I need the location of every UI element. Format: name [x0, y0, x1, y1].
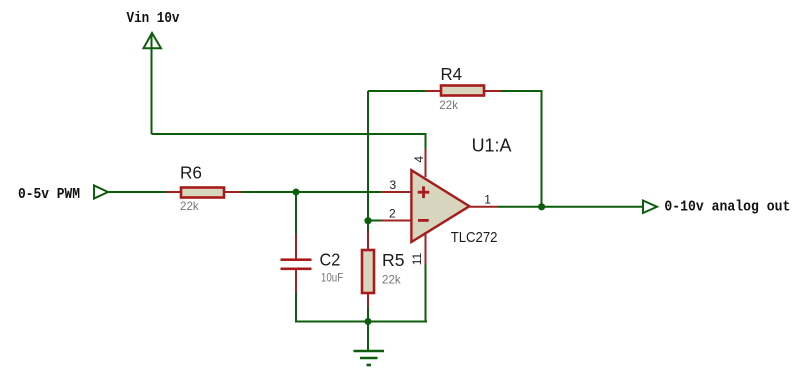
svg-text:C2: C2: [320, 249, 341, 269]
wire input to R6: [108, 191, 166, 193]
wire R5 top to junction: [367, 221, 369, 232]
svg-text:U1:A: U1:A: [472, 135, 513, 156]
wire bottom rail: [296, 321, 427, 323]
svg-text:4: 4: [412, 156, 426, 163]
pin 3: [381, 191, 411, 193]
wire R4 right horizontal and down: [501, 91, 542, 207]
svg-text:22k: 22k: [382, 273, 402, 287]
wire C2 top branch: [295, 192, 297, 234]
pin 11: [425, 232, 427, 265]
wire R4-left vertical to pin2 junction: [367, 91, 369, 221]
svg-text:R6: R6: [180, 163, 202, 183]
svg-text:Vin 10v: Vin 10v: [127, 10, 180, 27]
svg-text:0-10v analog out: 0-10v analog out: [664, 199, 790, 216]
wire R4 left horizontal: [368, 90, 425, 92]
node junction R6/C2: [293, 189, 300, 196]
ground: [354, 322, 385, 366]
pin 1: [469, 206, 498, 208]
wire junction to pin2: [368, 220, 382, 222]
svg-text:10uF: 10uF: [321, 271, 343, 285]
wire C2 bottom: [295, 292, 297, 323]
op-amp U1 body: [411, 170, 469, 242]
svg-text:3: 3: [390, 178, 397, 192]
wire R6 to pin3: [241, 191, 381, 193]
node junction output: [538, 203, 545, 210]
resistor R5: [362, 231, 374, 307]
wire Vin vertical: [151, 33, 153, 134]
resistor R4: [425, 86, 501, 96]
svg-text:22k: 22k: [439, 98, 459, 112]
power terminal Vin: [144, 33, 162, 48]
svg-text:1: 1: [484, 193, 491, 207]
node junction ground: [365, 318, 372, 325]
svg-text:0-5v PWM: 0-5v PWM: [18, 186, 80, 203]
wire pin11 to rail: [425, 265, 427, 323]
svg-text:11: 11: [410, 252, 424, 265]
wire Vin horizontal to pin4: [152, 134, 426, 149]
svg-text:2: 2: [389, 207, 396, 221]
svg-text:22k: 22k: [180, 199, 200, 213]
pin 2: [382, 220, 412, 222]
wire output: [498, 206, 643, 208]
output terminal: [643, 201, 657, 214]
svg-text:R5: R5: [382, 250, 405, 270]
pin 4: [425, 149, 427, 178]
node junction pin2/R5/feedback: [364, 217, 371, 224]
wire R5 bottom to rail: [367, 307, 369, 322]
svg-text:TLC272: TLC272: [451, 230, 498, 246]
svg-text:R4: R4: [441, 64, 463, 84]
input terminal: [94, 186, 108, 199]
resistor R6: [166, 188, 241, 198]
capacitor C2: [281, 234, 312, 292]
